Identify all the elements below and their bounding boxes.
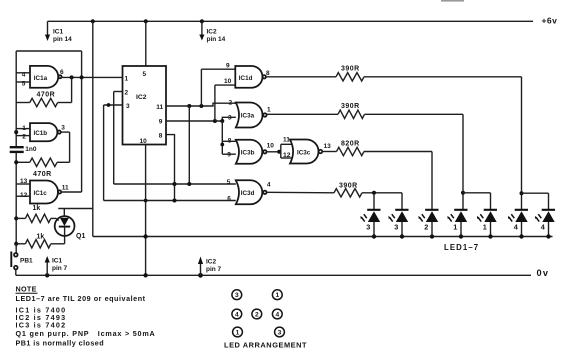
- svg-text:PB1: PB1: [20, 257, 33, 264]
- svg-text:4: 4: [275, 312, 279, 319]
- svg-text:390R: 390R: [339, 182, 358, 189]
- svg-text:10: 10: [267, 143, 275, 150]
- svg-text:11: 11: [156, 104, 163, 111]
- svg-text:IC1: IC1: [53, 29, 64, 36]
- svg-text:5: 5: [227, 179, 231, 186]
- svg-text:3: 3: [366, 223, 370, 232]
- svg-text:IC2: IC2: [206, 259, 217, 266]
- svg-text:5: 5: [143, 71, 147, 78]
- svg-text:LED1–7 are TIL 209 or equivale: LED1–7 are TIL 209 or equivalent: [16, 294, 146, 303]
- svg-text:IC2: IC2: [136, 94, 147, 101]
- svg-text:8: 8: [159, 133, 163, 140]
- svg-text:pin 14: pin 14: [53, 36, 72, 43]
- svg-text:1k: 1k: [37, 233, 45, 240]
- svg-text:8: 8: [266, 70, 270, 77]
- svg-text:12: 12: [283, 152, 291, 159]
- svg-text:1: 1: [236, 330, 240, 337]
- svg-text:+6v: +6v: [542, 16, 558, 26]
- svg-text:1: 1: [267, 107, 271, 114]
- svg-text:3: 3: [278, 330, 282, 337]
- svg-text:10: 10: [140, 138, 148, 145]
- svg-text:1: 1: [483, 223, 487, 232]
- svg-text:11: 11: [62, 184, 69, 191]
- svg-text:IC3 is 7402: IC3 is 7402: [16, 320, 67, 329]
- svg-text:3: 3: [61, 124, 65, 131]
- svg-text:3: 3: [126, 103, 130, 110]
- svg-text:10: 10: [224, 78, 232, 85]
- svg-text:IC1a: IC1a: [34, 75, 48, 82]
- svg-text:0v: 0v: [537, 268, 550, 278]
- svg-text:2: 2: [22, 134, 26, 141]
- svg-text:IC1c: IC1c: [34, 190, 48, 197]
- svg-text:3: 3: [235, 292, 239, 299]
- svg-text:3: 3: [228, 114, 232, 121]
- svg-text:LED ARRANGEMENT: LED ARRANGEMENT: [224, 341, 307, 350]
- svg-text:2: 2: [125, 90, 129, 97]
- svg-text:2: 2: [229, 99, 233, 106]
- svg-text:IC3b: IC3b: [241, 150, 255, 157]
- svg-text:6: 6: [60, 69, 64, 76]
- svg-text:6: 6: [227, 195, 231, 202]
- svg-text:Q1: Q1: [76, 233, 85, 240]
- svg-text:390R: 390R: [341, 103, 360, 110]
- svg-text:IC1: IC1: [52, 258, 63, 265]
- svg-text:1n0: 1n0: [25, 146, 37, 153]
- svg-text:IC1d: IC1d: [239, 75, 253, 82]
- svg-text:470R: 470R: [37, 92, 56, 99]
- svg-text:IC3c: IC3c: [297, 149, 311, 156]
- svg-text:1: 1: [275, 292, 279, 299]
- svg-text:1: 1: [125, 75, 129, 82]
- svg-text:820R: 820R: [341, 140, 360, 147]
- svg-text:pin 7: pin 7: [206, 266, 222, 273]
- svg-text:NOTE: NOTE: [16, 285, 37, 294]
- svg-text:IC2: IC2: [207, 29, 218, 36]
- svg-text:pin 7: pin 7: [52, 265, 68, 272]
- svg-text:1: 1: [453, 223, 457, 232]
- svg-text:IC3d: IC3d: [241, 190, 255, 197]
- svg-text:4: 4: [235, 312, 239, 319]
- svg-text:IC1b: IC1b: [34, 130, 48, 137]
- svg-text:1k: 1k: [33, 205, 41, 212]
- svg-text:9: 9: [227, 152, 231, 159]
- svg-text:4: 4: [267, 182, 271, 189]
- svg-text:Q1 gen purp. PNP Icmax > 50m: Q1 gen purp. PNP Icmax > 50mA: [16, 329, 156, 338]
- svg-text:9: 9: [226, 63, 230, 70]
- svg-text:2: 2: [424, 223, 428, 232]
- svg-text:9: 9: [159, 119, 163, 126]
- svg-text:LED1–7: LED1–7: [444, 243, 479, 252]
- svg-text:IC3a: IC3a: [241, 113, 255, 120]
- svg-text:390R: 390R: [341, 66, 360, 73]
- svg-text:11: 11: [283, 137, 290, 144]
- svg-text:3: 3: [394, 223, 398, 232]
- svg-text:2: 2: [255, 312, 259, 319]
- svg-text:pin 14: pin 14: [207, 36, 226, 43]
- svg-text:13: 13: [324, 143, 332, 150]
- svg-text:470R: 470R: [33, 171, 52, 178]
- svg-text:PB1 is normally closed: PB1 is normally closed: [16, 338, 105, 347]
